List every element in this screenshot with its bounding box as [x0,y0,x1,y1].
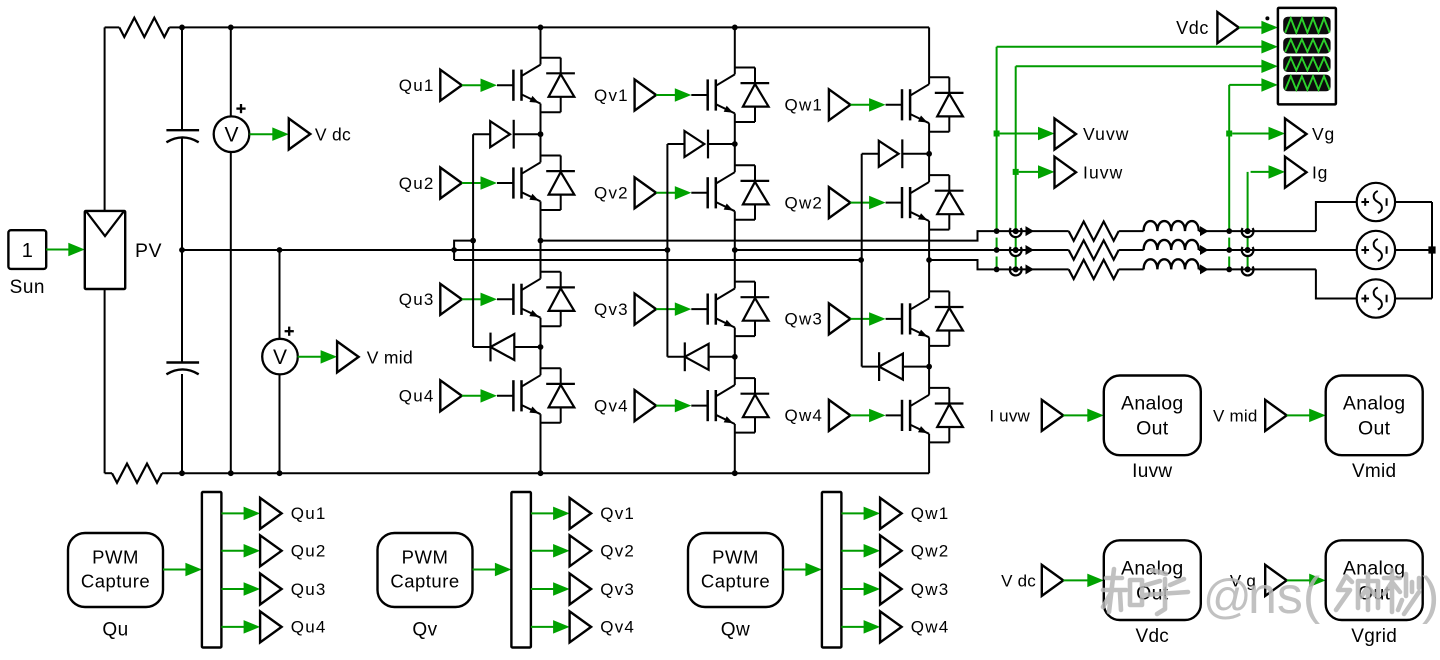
wire phase V output [735,249,1069,251]
transistor Qw4 (IGBT with antiparallel diode) [901,400,904,431]
port Qw3 output [880,574,902,605]
port Qw4 gate input [829,400,851,431]
wire PWM Qu to demux (green) [163,569,188,571]
svg-text:): ) [1422,567,1439,625]
transistor Qu4 (IGBT with antiparallel diode) [512,380,515,411]
svg-text:Qw4: Qw4 [785,406,824,425]
wire line 3 after filter [1199,268,1316,270]
block Analog Out Vgrid [1326,540,1423,620]
svg-text:Qu1: Qu1 [291,504,327,523]
wire phase W leg [928,27,930,84]
resistor R2 (bottom dc lead) [105,472,112,474]
transistor Qu1 (IGBT with antiparallel diode) [512,70,515,101]
diode Dw5 (upper clamp) [862,153,879,155]
wire Vdc meter output (green) [250,133,275,135]
svg-text:PWM: PWM [712,547,759,568]
svg-text:Qw1: Qw1 [911,504,950,523]
wire Ig probe vertical (green) [1247,172,1249,231]
svg-text:Capture: Capture [81,571,150,592]
svg-text:Qv3: Qv3 [594,300,629,319]
wire phase W output [929,260,1069,269]
node dc rail junctions [179,25,185,31]
node Vuvw tap line 2 [994,247,1000,253]
node phase W output [926,257,932,263]
svg-text:Qu1: Qu1 [399,76,435,95]
node Vg tap line 2 [1226,247,1232,253]
svg-text:Qu3: Qu3 [291,580,327,599]
port Qw2 output [880,535,902,566]
svg-text:Iuvw: Iuvw [1132,461,1172,482]
block Sun constant source [8,230,46,269]
port Iuvw [1055,157,1077,188]
svg-text:Qu4: Qu4 [399,387,435,406]
wire phase U leg [540,27,542,64]
svg-text:Vgrid: Vgrid [1351,626,1397,647]
node phase V bottom rail [732,470,738,476]
port Vdc input [1042,565,1064,596]
wire Qw3 gate (green) [850,318,871,320]
svg-text:Qv4: Qv4 [594,396,629,415]
wire line 1 after filter [1199,230,1316,232]
node phase U top rail [538,25,544,31]
transistor Qu3 (IGBT with antiparallel diode) [512,284,515,315]
svg-text:Qv3: Qv3 [600,580,635,599]
svg-text:PV: PV [135,240,162,262]
port Qv2 output [570,535,592,566]
transistor Qw1 (IGBT with antiparallel diode) [901,89,904,120]
wire neutral jog at phase U [454,241,473,260]
svg-text:Qu2: Qu2 [399,174,435,193]
wire Vmid voltmeter branch [279,250,281,339]
port Qv1 output [570,498,592,529]
node Iuvw junction (green) [1013,169,1019,175]
current arrow line 3 [1026,264,1035,274]
wire phase V leg [734,27,736,74]
diode Dv5 (upper clamp) [667,143,684,145]
scope screen 3 [1283,56,1330,72]
svg-text:Qw2: Qw2 [911,542,950,561]
svg-text:Capture: Capture [390,571,459,592]
demux Qv [511,492,531,648]
wire Vuvw arrow (green) [1000,133,1041,135]
demux Qw [822,492,842,648]
inductor Lf3 (filter) [1119,268,1144,270]
port Qw1 gate input [829,89,851,120]
svg-text:Vdc: Vdc [1176,18,1209,38]
port Qv4 gate input [635,390,657,421]
svg-text:Qw: Qw [721,620,751,641]
wire grid phase 3 riser [1316,269,1357,298]
svg-text:ns(: ns( [1248,567,1321,625]
port Vuvw [1055,119,1077,150]
svg-text:V mid: V mid [1213,407,1257,426]
inductor Lf2 (filter) [1119,249,1144,251]
svg-text:Capture: Capture [701,571,770,592]
wire Vg probe vertical (green) [1228,85,1230,231]
wire Qu3 gate (green) [462,298,483,300]
diode Du6 (lower clamp) [473,346,490,348]
transistor Qu2 (IGBT with antiparallel diode) [512,167,515,198]
demux Qu [202,492,222,648]
port Qv1 gate input [635,80,657,111]
diode Dv6 (lower clamp) [667,356,684,358]
svg-text:Out: Out [1136,418,1169,440]
wire Vdc voltmeter branch [230,27,232,116]
wire Ig arrow (green) [1251,171,1271,173]
svg-text:Analog: Analog [1343,393,1406,415]
port Vdc (meter output) [289,119,311,150]
svg-text:Vdc: Vdc [1135,626,1169,647]
transistor Qv3 (IGBT with antiparallel diode) [706,294,709,325]
svg-text:Qu3: Qu3 [399,290,435,309]
resistor R1 (top dc lead) [105,26,120,28]
port Qu1 output [260,498,282,529]
port Qw4 output [880,611,902,642]
node Vuvw tap line 1 [994,228,1000,234]
diode Du5 (upper clamp) [473,133,490,135]
current arrow line 1 [1026,226,1035,236]
resistor Rf2 (filter) [1069,240,1119,259]
wire Qv2 gate (green) [656,192,677,194]
wire demux Qu out 2 (green) [221,550,246,552]
svg-text:V: V [273,346,287,369]
svg-text:Qv1: Qv1 [594,86,629,105]
wire demux Qv out 4 (green) [531,626,556,628]
wire to Analog Out Vmid (green) [1287,414,1312,416]
wire Iuvw probe vertical (green) [1015,66,1017,231]
wire demux Qv out 1 (green) [531,512,556,514]
wire demux Qu out 3 (green) [221,588,246,590]
port Qv4 output [570,611,592,642]
port Qu1 gate input [440,70,462,101]
svg-text:Qw3: Qw3 [911,580,950,599]
svg-text:Analog: Analog [1121,393,1184,415]
node phase U bottom rail [538,470,544,476]
svg-text:Qw2: Qw2 [785,193,824,212]
scope block [1278,8,1336,105]
svg-text:Ig: Ig [1312,163,1328,183]
node Vg tap line 1 [1226,228,1232,234]
ammeter Ag2 (Ig) [1242,247,1254,256]
block Analog Out Vmid [1326,376,1423,456]
svg-text:Iuvw: Iuvw [1083,163,1123,183]
wire Qv1 gate (green) [656,94,677,96]
svg-text:1: 1 [22,240,33,262]
inductor Lf1 (filter) [1119,230,1144,232]
svg-text:Qw4: Qw4 [911,618,950,637]
transistor Qv2 (IGBT with antiparallel diode) [706,177,709,208]
svg-text:Qv1: Qv1 [600,504,635,523]
wire Qu1 gate (green) [462,84,483,86]
port Qv2 gate input [635,177,657,208]
ammeter A3 (Iuvw) [1010,266,1022,275]
source Vac2 (grid phase 2) [1357,231,1395,269]
node grid neutral [1428,246,1435,253]
ammeter Ag3 (Ig) [1242,266,1254,275]
port Qw3 gate input [829,303,851,334]
wire grid neutral return [1395,201,1432,203]
port Iuvw input [1042,400,1064,431]
port Qw2 gate input [829,187,851,218]
svg-text:Sun: Sun [10,277,45,298]
port Qu3 output [260,574,282,605]
port Vgrid input [1265,565,1287,596]
port Qu4 gate input [440,380,462,411]
wire demux Qv out 2 (green) [531,550,556,552]
transistor Qv1 (IGBT with antiparallel diode) [706,79,709,110]
svg-text:Qu4: Qu4 [291,618,327,637]
wire to Analog Out Iuvw (green) [1063,414,1090,416]
wire scope input 2 (green) [997,46,1262,48]
port Qu2 output [260,535,282,566]
source Vac3 (grid phase 3) [1357,279,1395,317]
node neutral to clamp W [858,257,864,263]
block PWM Capture Qv [378,533,473,607]
svg-text:Qw1: Qw1 [785,96,824,115]
wire clamp vertical phase W [861,154,863,367]
svg-text:Qw3: Qw3 [785,310,824,329]
wire clamp vertical phase U [472,134,474,347]
svg-text:V dc: V dc [315,125,351,145]
svg-text:V dc: V dc [1001,572,1036,591]
svg-text:V: V [224,124,238,147]
block PWM Capture Qw [688,533,783,607]
wire Vuvw probe vertical (green) [996,47,998,231]
port Vmid input [1265,400,1287,431]
node phase V output [732,247,738,253]
current arrow line 1 (grid side) [1200,226,1209,236]
wire demux Qu out 1 (green) [221,512,246,514]
svg-text:PWM: PWM [92,547,139,568]
wire demux Qw out 3 (green) [841,588,866,590]
svg-text:Qu: Qu [102,620,128,641]
block PWM Capture Qu [68,533,163,607]
svg-text:I uvw: I uvw [989,407,1030,426]
wire scope input 1 (green) [1239,27,1264,29]
wire dc-link capacitor branch [181,27,183,130]
port Vmid (meter output) [337,341,359,372]
wire left dc vertical [104,27,106,211]
voltmeter V1 (dc bus) [214,116,250,152]
svg-text:Qv: Qv [412,620,437,641]
svg-text:PWM: PWM [402,547,449,568]
block PV array [85,211,125,289]
wire Vmid meter output (green) [298,356,324,358]
port Qw1 output [880,498,902,529]
wire Qw4 gate (green) [850,414,871,416]
ammeter Ag1 (Ig) [1242,228,1254,237]
port Qv3 output [570,574,592,605]
scope screen 4 [1283,75,1330,92]
svg-text:Vmid: Vmid [1352,461,1397,482]
wire PWM Qw to demux (green) [783,569,808,571]
wire scope input 3 (green) [1016,65,1262,67]
wire to Analog Out Vdc (green) [1063,579,1090,581]
wire PWM Qv to demux (green) [473,569,498,571]
svg-text:Qv2: Qv2 [594,184,629,203]
svg-text:Vuvw: Vuvw [1083,124,1130,144]
wire Vg arrow (green) [1232,133,1271,135]
wire Qv4 gate (green) [656,405,677,407]
node neutral to clamp V [665,247,671,253]
ammeter A2 (Iuvw) [1010,247,1022,256]
port Vg [1285,119,1307,150]
node neutral jog at clamp U [470,238,476,244]
wire demux Qw out 2 (green) [841,550,866,552]
wire clamp vertical phase V [666,144,668,357]
wire demux Qv out 3 (green) [531,588,556,590]
diode Dw6 (lower clamp) [862,366,879,368]
wire Qw2 gate (green) [850,202,871,204]
wire Qw1 gate (green) [850,104,871,106]
wire neutral lower rail [454,259,861,261]
wire neutral mid rail [182,249,667,251]
wire demux Qw out 1 (green) [841,512,866,514]
node phase U output [538,238,544,244]
scope screen 1 [1283,17,1330,35]
scope screen 2 [1283,38,1330,54]
wire line 2 after filter [1199,249,1357,251]
wire Qv3 gate (green) [656,308,677,310]
svg-text:Out: Out [1358,418,1391,440]
wire bottom dc rail [182,472,929,474]
node phase V top rail [732,25,738,31]
svg-text:Qv4: Qv4 [600,618,635,637]
port Qu3 gate input [440,284,462,315]
wire Sun to PV (green) [46,249,71,251]
port Vdc scope input [1217,12,1239,43]
transistor Qw2 (IGBT with antiparallel diode) [901,187,904,218]
wire Qu2 gate (green) [462,182,483,184]
wire phase U output [541,231,1069,241]
block Analog Out Iuvw [1104,376,1201,456]
wire scope input 4 (green) [1229,84,1262,86]
wire grid phase 1 riser [1316,202,1357,231]
node Vuvw tap line 3 [994,267,1000,273]
block Analog Out Vdc [1104,540,1201,620]
capacitor C1 (upper dc-link) [166,129,199,131]
svg-text:Vg: Vg [1312,124,1335,144]
current arrow line 2 [1026,245,1035,255]
capacitor C2 (lower dc-link) [166,361,199,363]
source Vac1 (grid phase 1) [1357,183,1395,221]
current arrow line 2 (grid side) [1200,245,1209,255]
voltmeter V2 (midpoint) [262,339,298,375]
svg-text:V mid: V mid [367,347,413,367]
node Vg tap line 3 [1226,267,1232,273]
svg-text:Qu2: Qu2 [291,542,327,561]
current arrow line 3 (grid side) [1200,264,1209,274]
node Vg junction (green) [1226,131,1232,137]
wire to Analog Out Vgrid (green) [1287,579,1312,581]
wire Iuvw arrow (green) [1019,171,1041,173]
wire Qu4 gate (green) [462,395,483,397]
port Qu4 output [260,611,282,642]
svg-text:Qv2: Qv2 [600,542,635,561]
wire demux Qu out 4 (green) [221,626,246,628]
wire demux Qw out 4 (green) [841,626,866,628]
transistor Qw3 (IGBT with antiparallel diode) [901,303,904,334]
wire top dc rail [182,26,929,28]
watermark zhihu @ns [1103,569,1419,614]
transistor Qv4 (IGBT with antiparallel diode) [706,390,709,421]
port Qu2 gate input [440,168,462,199]
svg-text:@: @ [1203,571,1252,624]
port Ig [1285,157,1307,188]
resistor Rf1 (filter) [1069,222,1119,241]
resistor Rf3 (filter) [1069,260,1119,279]
port Qv3 gate input [635,294,657,325]
node Vuvw junction (green) [994,131,1000,137]
ammeter A1 (Iuvw) [1010,228,1022,237]
